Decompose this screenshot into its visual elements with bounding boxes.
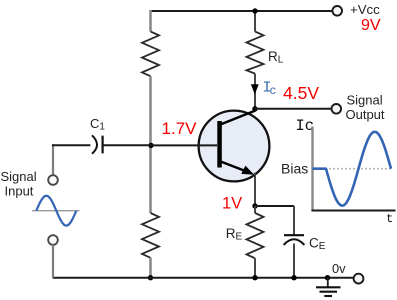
resistor RE (247, 213, 264, 258)
capacitor CE curved bottom plate (284, 239, 305, 245)
svg-text:0v: 0v (332, 261, 346, 276)
wire: RE bottom to rail (254, 258, 256, 278)
svg-text:RE: RE (226, 226, 243, 243)
source sine icon wave (36, 196, 76, 226)
svg-text:C1: C1 (90, 116, 105, 133)
svg-text:Input: Input (5, 184, 34, 199)
node: rail junction at ground symbol (325, 275, 330, 280)
wire: RE top stub (254, 206, 256, 213)
wire: left branch between base node and R2 (149, 145, 152, 213)
wire: C1 right to base node (103, 144, 151, 146)
graph: y-axis (311, 127, 313, 212)
terminal: signal output circle (332, 104, 342, 114)
resistor R2 (lower bias resistor) (142, 213, 159, 258)
svg-text:RL: RL (268, 49, 284, 66)
terminal: signal input bottom circle (48, 235, 58, 245)
wire: left branch between R1 and base node (149, 76, 152, 145)
transistor base bar (217, 121, 222, 168)
wire: RL to collector node (254, 74, 256, 111)
transistor collector lead (220, 111, 256, 125)
wire: base wire from divider node into transistor (151, 144, 217, 146)
svg-text:1.7V: 1.7V (162, 119, 198, 138)
node: rail junction under CE (291, 275, 296, 280)
wire: bottom ground rail (53, 277, 354, 279)
terminal: signal input top circle (48, 175, 58, 185)
wire: collector node to signal output terminal (255, 108, 332, 110)
svg-text:4.5V: 4.5V (283, 83, 319, 103)
source sine icon axis (32, 210, 80, 212)
graph: bias dotted line (313, 168, 393, 170)
svg-text:c: c (270, 85, 277, 98)
node: rail junction under RE (252, 275, 257, 280)
terminal: +Vcc circle (332, 6, 342, 16)
resistor RL (247, 32, 264, 74)
svg-text:1V: 1V (222, 194, 242, 212)
arrow: collector current Ic arrow on wire (251, 84, 259, 94)
wire: RL branch top stub (254, 11, 256, 32)
ground symbol (327, 278, 329, 287)
wire: CE branch down to capacitor (293, 206, 295, 235)
resistor R1 (upper bias resistor) (142, 32, 159, 77)
svg-text:+Vcc: +Vcc (350, 2, 380, 17)
capacitor CE top plate (284, 234, 304, 236)
wire: top supply rail (150, 10, 333, 12)
node: top rail junction dot (252, 8, 257, 13)
capacitor C1 curved left plate (92, 135, 97, 153)
wire: left branch vertical (bias divider) (149, 10, 152, 32)
wire: left branch R2 to ground rail (149, 258, 152, 278)
wire: bottom input terminal to rail (52, 245, 54, 278)
wire: input to C1 left (52, 144, 54, 175)
svg-text:Signal: Signal (347, 92, 383, 107)
transistor emitter lead with arrow (220, 161, 246, 171)
svg-text:t: t (386, 212, 393, 226)
wire: emitter node to CE branch (255, 205, 294, 207)
capacitor C1 straight right plate (101, 136, 103, 154)
svg-text:Output: Output (346, 107, 385, 122)
wire: CE bottom to rail (293, 244, 295, 279)
node: bottom rail junction under R2 (148, 275, 153, 280)
terminal: 0v circle (354, 274, 364, 284)
svg-text:Bias: Bias (281, 160, 308, 176)
node: base-node junction dot (148, 143, 153, 148)
graph: output waveform (313, 132, 392, 206)
wire: emitter down to emitter node (254, 173, 256, 207)
graph: x-axis (312, 210, 396, 212)
svg-text:Signal: Signal (1, 169, 37, 184)
svg-text:CE: CE (309, 236, 326, 253)
node: collector junction dot (252, 106, 257, 111)
node: emitter junction dot (252, 203, 257, 208)
svg-text:9V: 9V (361, 17, 381, 34)
transistor Q1 body circle (199, 111, 270, 182)
